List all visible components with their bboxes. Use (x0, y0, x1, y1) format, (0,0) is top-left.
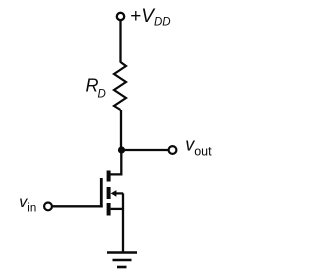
wire resistor to drain node (120, 110, 122, 150)
ground bar middle (113, 259, 132, 262)
terminal vout (169, 146, 177, 154)
resistor RD (114, 62, 126, 110)
source stub wire (111, 208, 124, 210)
gate wire (53, 205, 103, 207)
body stub wire (116, 192, 124, 194)
body channel segment (107, 187, 111, 199)
body arrow (111, 190, 117, 197)
wire source to ground (122, 193, 124, 252)
terminal vin (44, 203, 52, 211)
wire node to vout terminal (122, 149, 169, 151)
svg-text:vout: vout (185, 135, 212, 159)
wire node to drain stub (110, 150, 122, 174)
ground bar top (107, 251, 137, 254)
node drain junction (118, 146, 125, 153)
terminal +VDD (117, 13, 124, 20)
drain channel segment (107, 171, 111, 182)
ground (107, 253, 137, 268)
ground bar bottom (117, 266, 127, 269)
gate electrode bar (100, 178, 103, 208)
svg-text:RD: RD (86, 76, 106, 101)
svg-text:vin: vin (19, 194, 36, 214)
source channel segment (107, 203, 111, 216)
transistor Q1 (100, 171, 123, 216)
svg-text:+VDD: +VDD (130, 6, 170, 29)
wire VDD to resistor (119, 21, 121, 63)
